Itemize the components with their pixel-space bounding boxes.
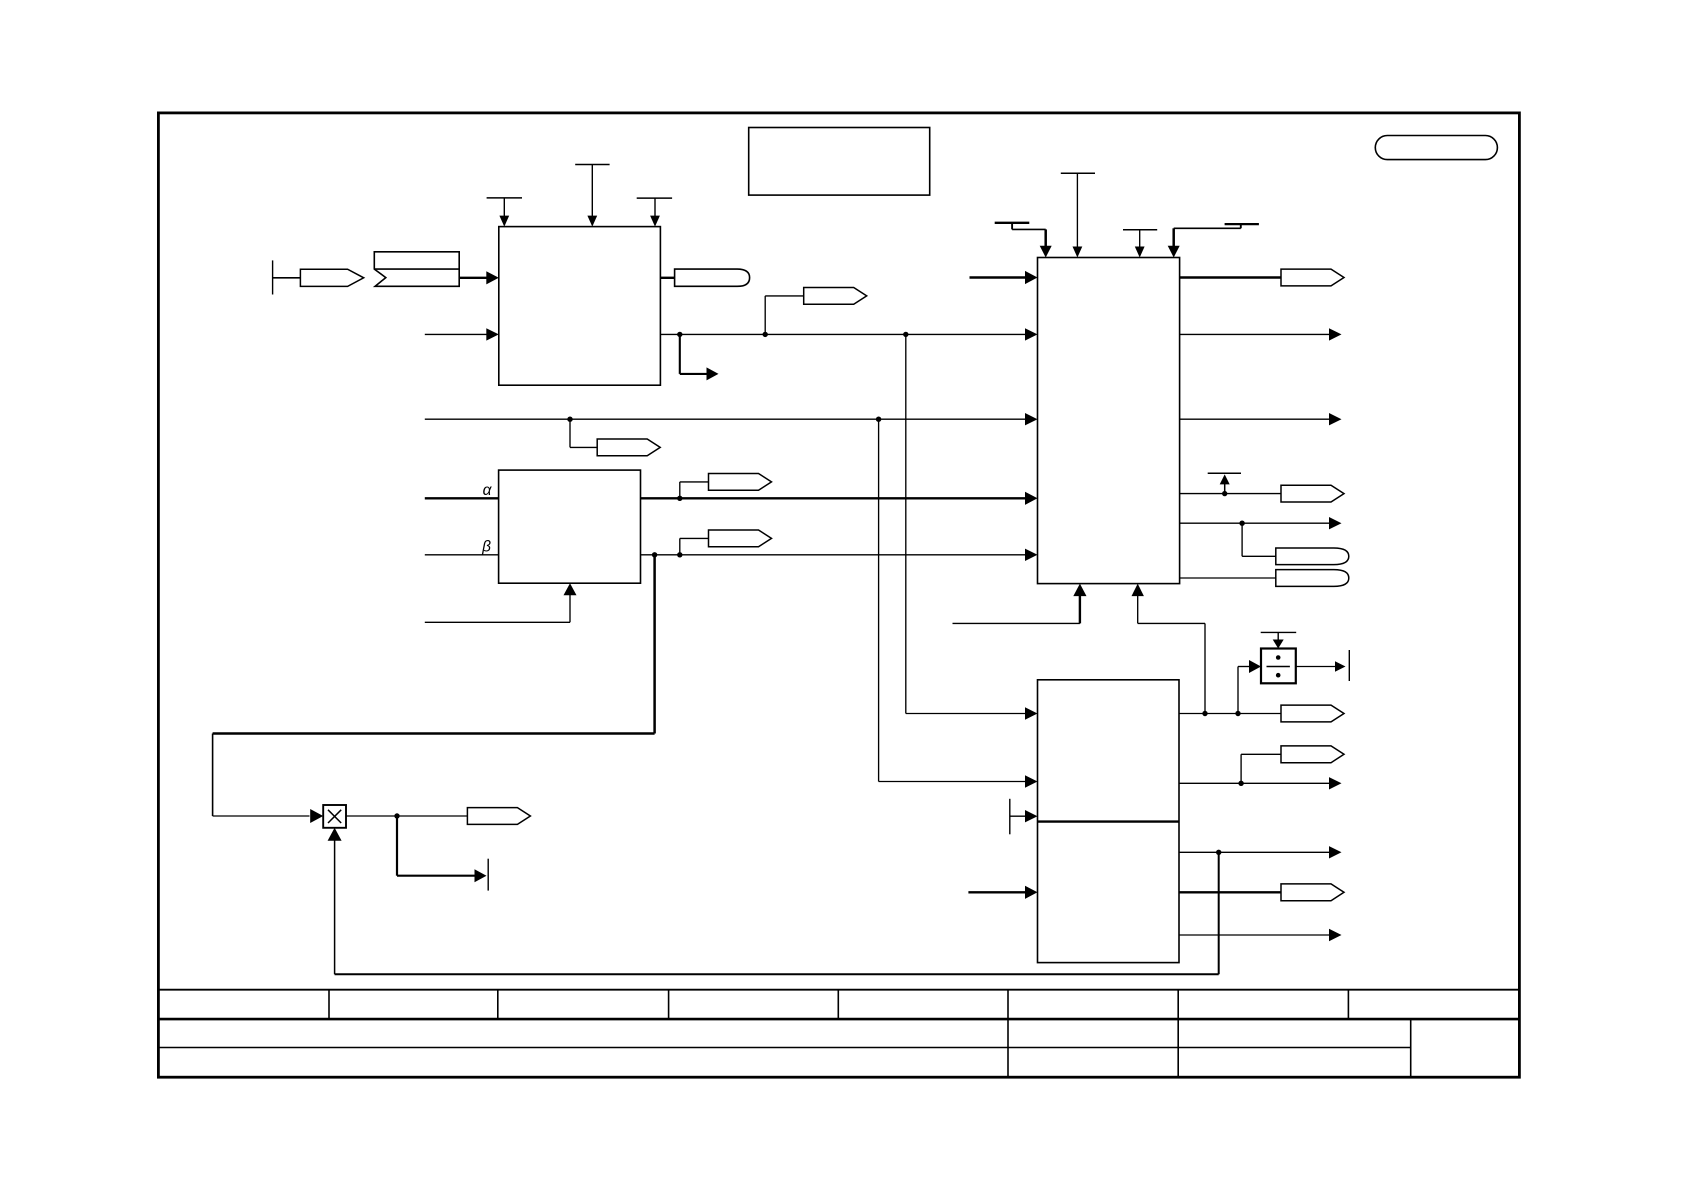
svg-text:α: α (483, 482, 493, 499)
svg-text:β: β (481, 539, 491, 556)
